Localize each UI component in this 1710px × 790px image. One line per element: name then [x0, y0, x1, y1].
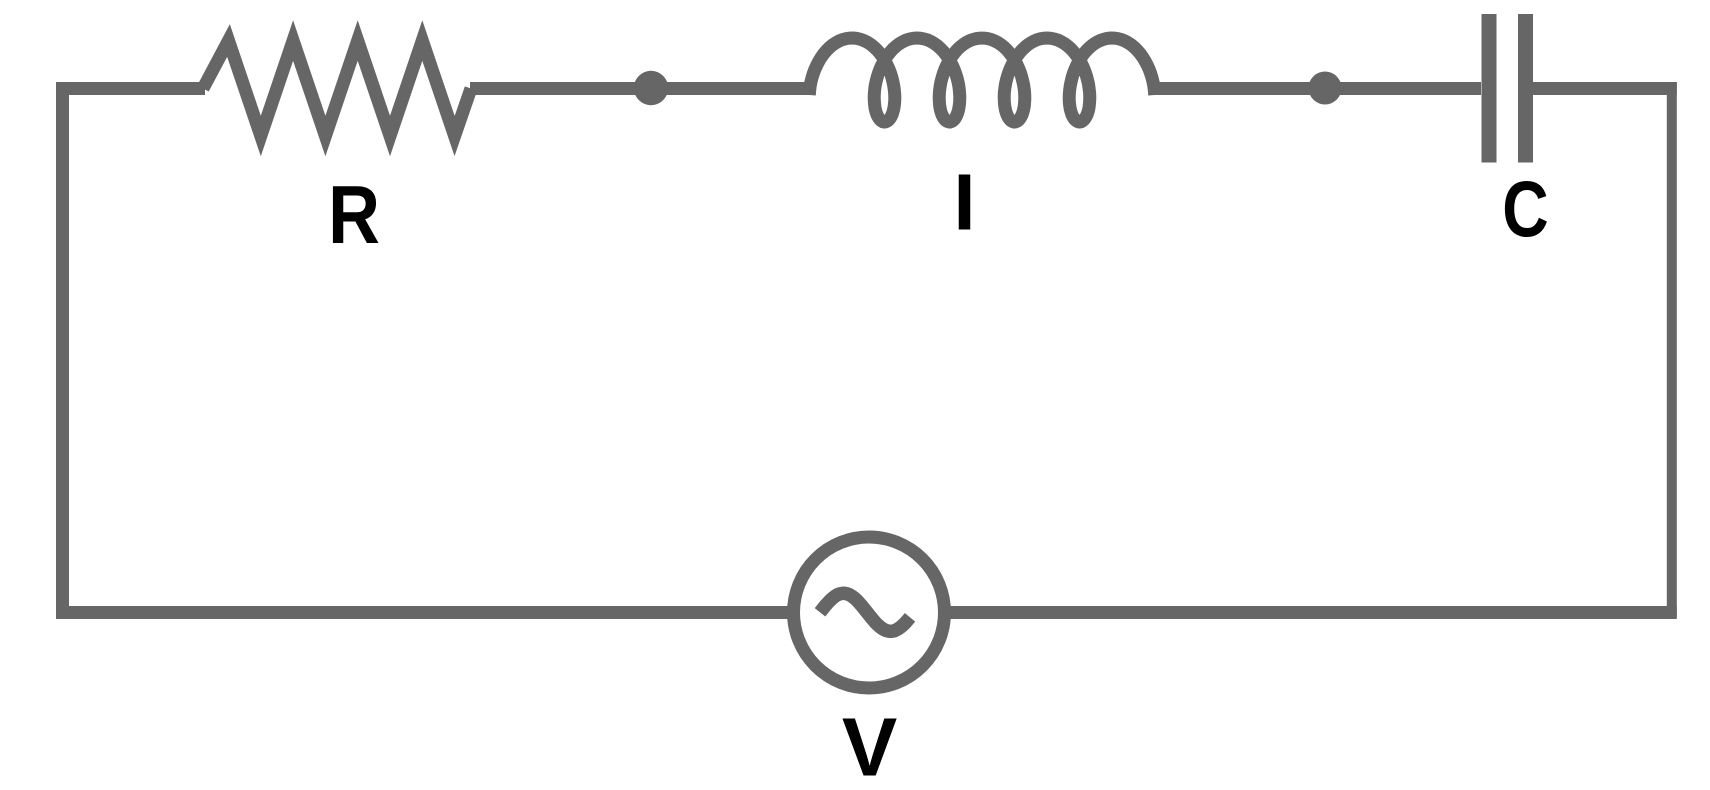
node A junction dot [634, 71, 668, 105]
wire bottom-right segment [946, 606, 1677, 619]
resistor R [203, 41, 471, 137]
node B junction dot [1309, 72, 1342, 105]
wire top-left segment [56, 82, 205, 95]
wire resistor to node A [470, 82, 652, 95]
wire capacitor to top-right corner [1533, 82, 1677, 95]
svg-text:V: V [842, 701, 897, 790]
wire inductor to node B [1153, 82, 1326, 95]
AC source sine symbol [820, 593, 910, 631]
wire right vertical [1667, 82, 1677, 618]
svg-text:R: R [328, 169, 380, 261]
svg-text:C: C [1502, 166, 1548, 254]
capacitor C right plate [1518, 14, 1533, 163]
wire bottom-left segment [56, 606, 792, 619]
AC source V circle [794, 537, 945, 688]
inductor I coil [809, 38, 1154, 122]
wire node A to inductor [651, 82, 810, 95]
svg-text:I: I [953, 158, 975, 247]
wire left vertical [56, 82, 69, 619]
capacitor C left plate [1482, 14, 1497, 163]
wire node B to capacitor [1325, 82, 1481, 95]
